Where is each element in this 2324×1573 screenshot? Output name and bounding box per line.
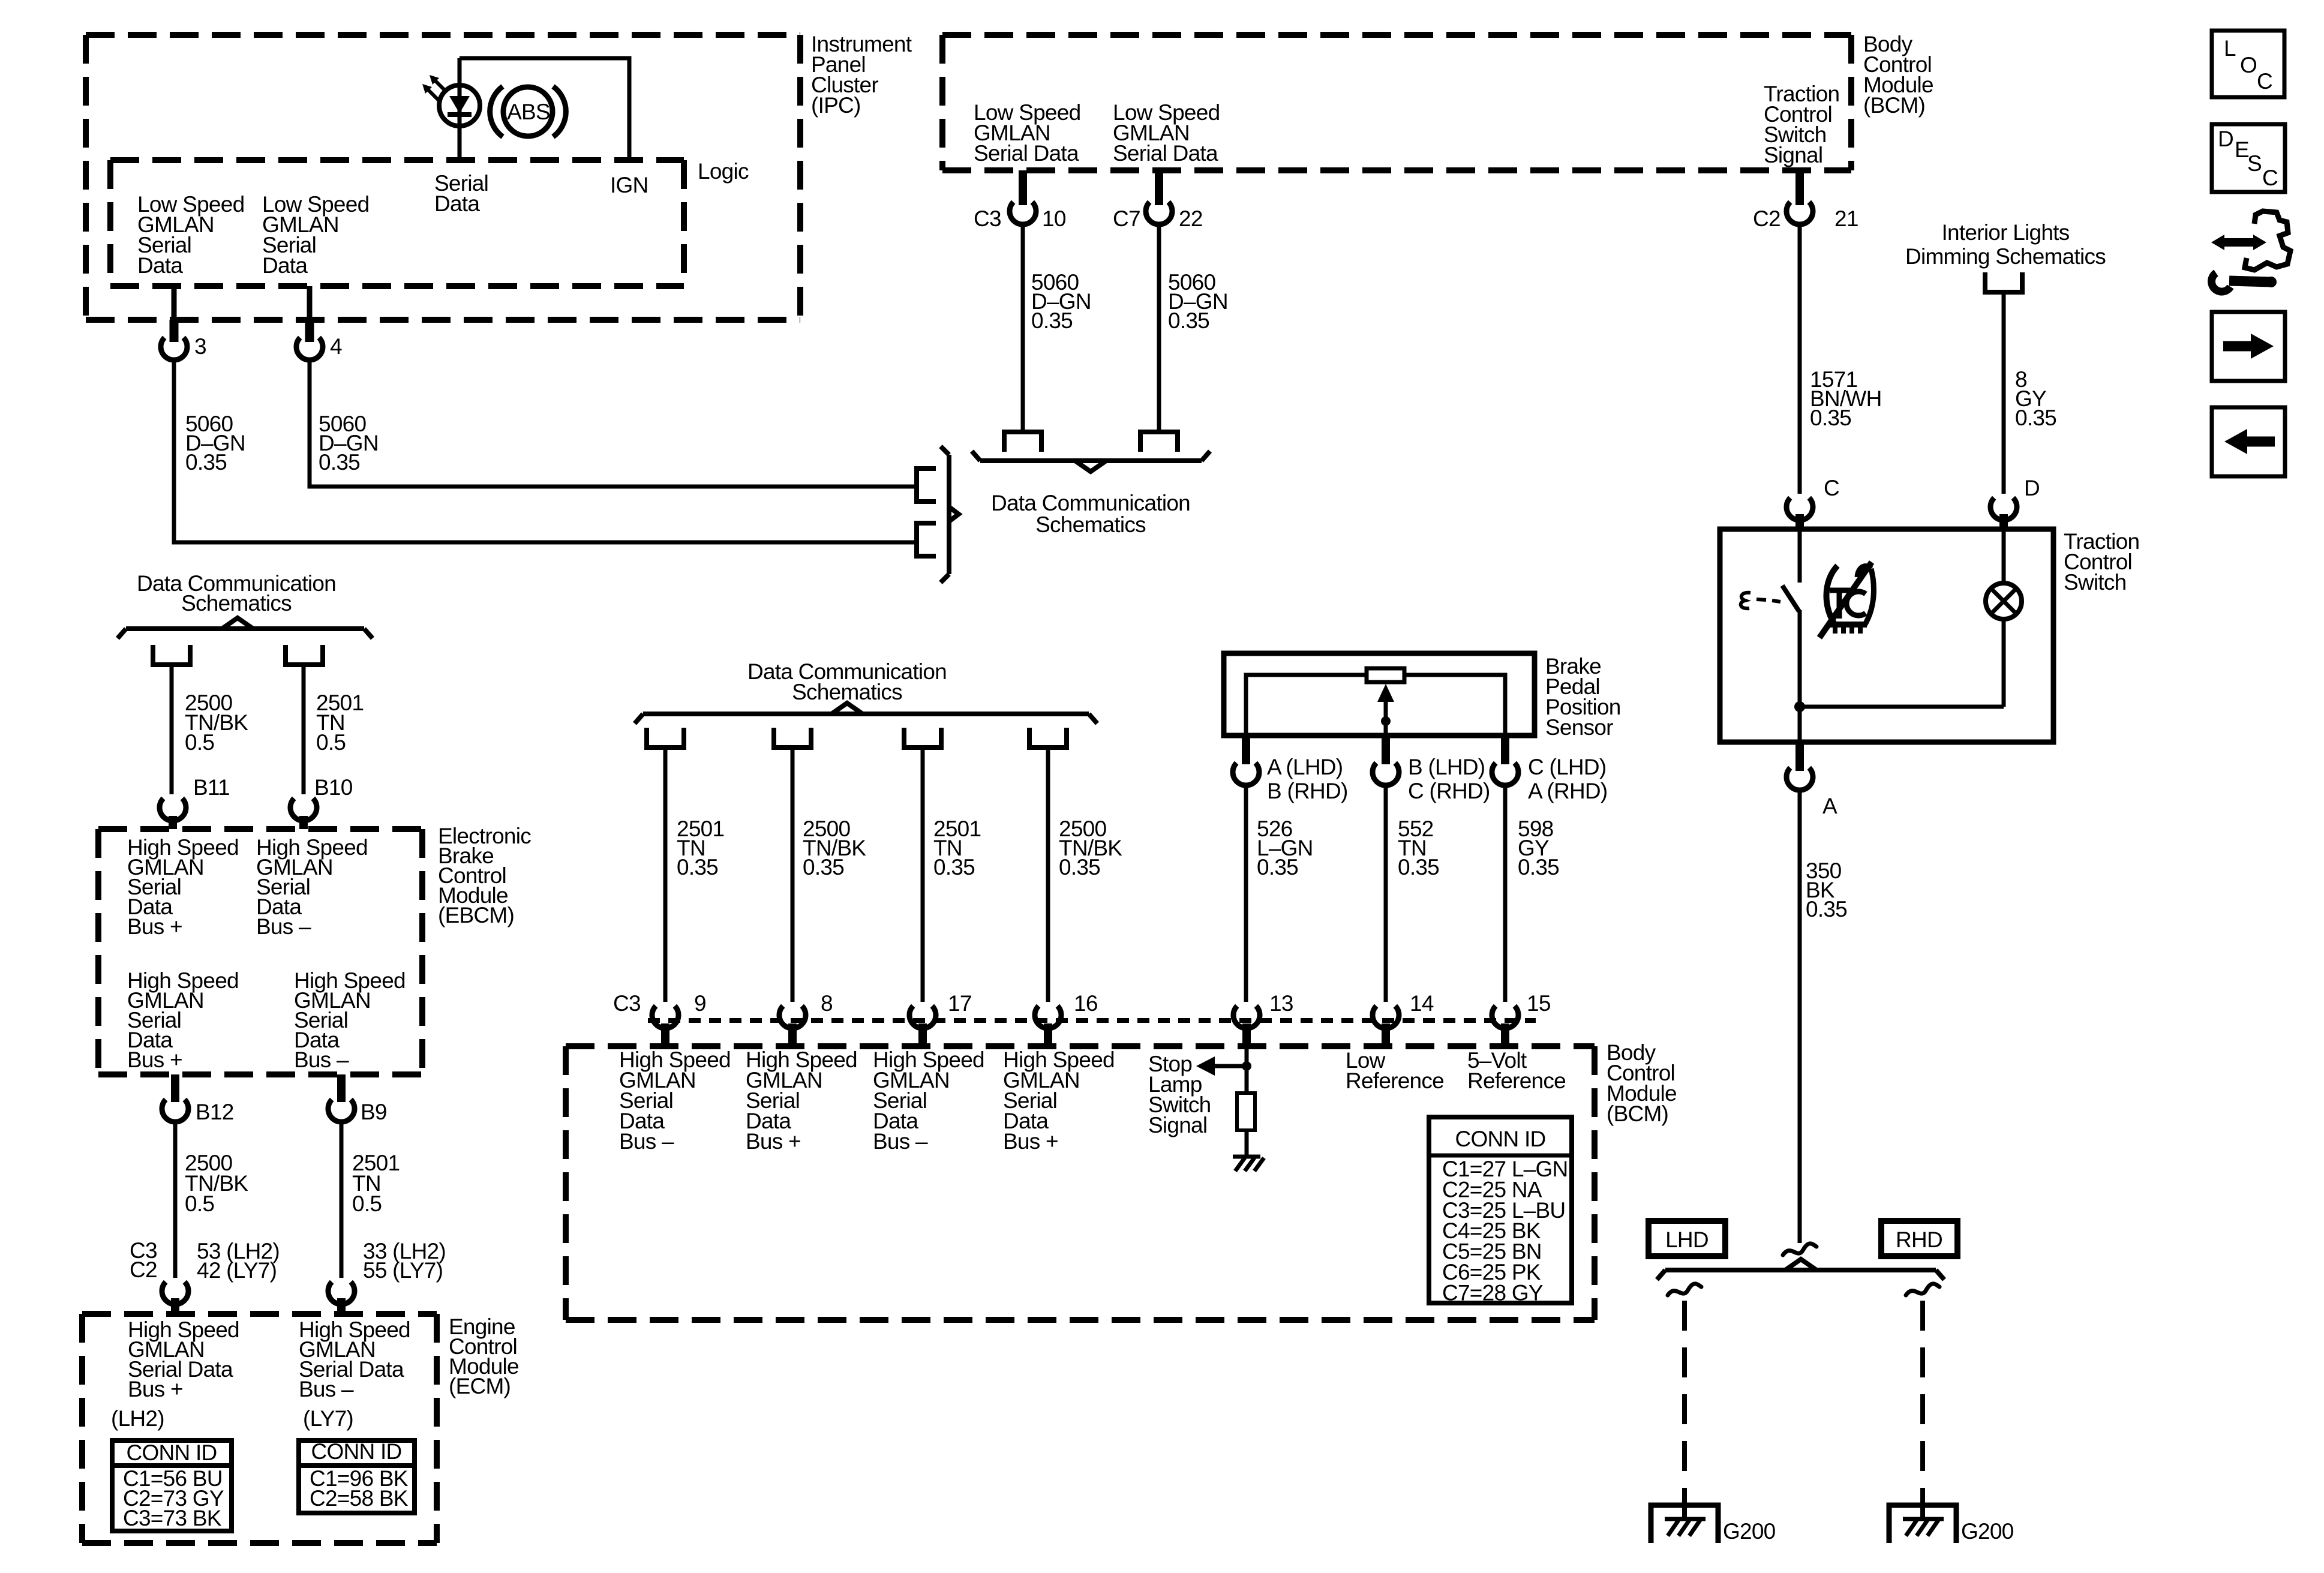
svg-text:B (LHD): B (LHD) [1408,755,1485,779]
svg-text:B (RHD): B (RHD) [1267,779,1348,803]
wire 2500 TN/BK (pin 16) [1046,748,1050,1002]
svg-text:Serial Data: Serial Data [1113,141,1218,166]
svg-text:Data Communication: Data Communication [991,491,1190,515]
label box RHD [1881,1221,1957,1256]
svg-text:C: C [2262,166,2278,190]
connector C3 pin 10 [974,170,1066,231]
svg-text:Bus +: Bus + [127,1047,182,1072]
svg-text:B9: B9 [361,1100,387,1124]
svg-text:0.35: 0.35 [1806,897,1847,921]
svg-text:Schematics: Schematics [1035,512,1146,537]
svg-text:C2: C2 [1753,206,1780,231]
svg-text:15: 15 [1527,991,1551,1016]
receptacle (pin 10 off-page) [1004,432,1041,452]
receptacle (middle wire 4) [1029,728,1067,748]
receptacle (middle wire 2) [774,728,811,748]
connector B11 [160,775,230,829]
wire 598 GY [1503,785,1508,1002]
connector B LHD (sensor) [1373,736,1490,803]
wire 5060 D-GN (pin 4) [310,360,914,487]
connector ECM pin 53/42 [162,1282,188,1314]
receptacle (wire 4 off-page) [917,469,936,502]
svg-text:Data: Data [262,253,308,278]
icon LOC [2212,31,2284,97]
arrow to stop lamp switch signal [1196,1056,1215,1076]
wire 526 L-GN [1244,785,1248,1002]
svg-text:(LH2): (LH2) [111,1406,164,1431]
connector pin 15 (BCM bottom) [1492,991,1551,1046]
indicator lamp DS1 ABS LED [422,58,480,161]
wire switch output to junction [1798,610,1802,742]
svg-text:0.35: 0.35 [2015,406,2056,430]
svg-text:Data: Data [137,253,183,278]
icon TC off indicator [1819,562,1873,638]
table CONN ID (ECM LH2) [112,1440,232,1531]
component box B1 Brake Pedal Position Sensor [1224,653,1535,736]
connector pin 17 (BCM bottom) [909,991,972,1046]
ground G200 (LHD) [1651,1505,1776,1544]
module box U4 Electronic Brake Control Module (EBCM) [98,826,422,832]
svg-text:Serial Data: Serial Data [974,141,1079,166]
wire 2501 TN (B9) [340,1122,344,1278]
svg-text:Logic: Logic [698,159,749,184]
svg-text:0.35: 0.35 [1518,855,1559,879]
wire 2501 TN (B10) [302,665,306,794]
lamp wire from D [2002,532,2006,583]
svg-text:A: A [1822,794,1837,818]
receptacle (B10 off-page) [286,645,323,665]
brace to Data Communication Schematics (BCM wires) [980,458,1202,463]
receptacle (wire 3 off-page) [917,523,936,556]
wire 2501 TN (pin 9) [663,748,668,1002]
svg-text:0.35: 0.35 [319,450,360,475]
wire ground LHD (dashed) [1682,1301,1687,1503]
svg-text:0.35: 0.35 [1059,855,1100,879]
svg-text:Reference: Reference [1467,1068,1566,1093]
wire IGN jumper [460,58,629,161]
svg-text:O: O [2240,53,2257,77]
svg-text:C: C [2257,69,2272,94]
svg-text:C (RHD): C (RHD) [1408,779,1490,803]
connector pin 3 [161,286,206,360]
svg-text:A (LHD): A (LHD) [1267,755,1343,779]
wire pot left [1246,675,1367,736]
switch blade S1 [1782,586,1799,611]
connector pin 13 (BCM bottom) [1233,991,1293,1046]
svg-text:(EBCM): (EBCM) [438,903,514,927]
wire switch input C [1798,532,1802,583]
wire break squiggle (RHD) [1906,1284,1939,1295]
svg-text:21: 21 [1834,206,1858,231]
svg-text:Sensor: Sensor [1545,715,1613,740]
module box U2 Body Control Module (BCM) top [942,32,1851,38]
svg-text:0.5: 0.5 [185,1191,214,1216]
connector ECM pin 33/55 [328,1282,355,1314]
connector pin 9 (BCM bottom) [652,991,706,1046]
connector C2 pin 21 [1753,170,1858,231]
junction dot switch [1794,701,1805,712]
receptacle (interior lights off-page) [1985,272,2022,292]
svg-text:Bus +: Bus + [128,1377,183,1401]
logic box IPC Logic [110,157,684,163]
svg-text:A (RHD): A (RHD) [1528,779,1607,803]
connector pin 8 (BCM bottom) [779,991,833,1046]
svg-text:3: 3 [194,334,206,359]
wire 2500 TN/BK (B12) [173,1122,178,1278]
wire 2500 TN/BK (pin 8) [791,748,795,1002]
ground G200 (RHD) [1889,1505,2014,1544]
svg-text:14: 14 [1410,991,1434,1016]
svg-text:0.35: 0.35 [1168,308,1209,333]
svg-text:(BCM): (BCM) [1863,93,1925,118]
svg-text:Bus +: Bus + [127,914,182,939]
svg-text:IGN: IGN [610,173,648,197]
svg-text:G200: G200 [1961,1519,2014,1544]
svg-text:C7: C7 [1113,206,1140,231]
wire 350 BK [1798,790,1802,1243]
svg-text:13: 13 [1269,991,1293,1016]
pot wiper arrow [1377,684,1394,736]
connector pin 16 (BCM bottom) [1035,991,1098,1046]
wire 552 TN [1384,785,1388,1002]
receptacle (pin 22 off-page) [1140,432,1178,452]
component box S1 Traction Control Switch [1720,529,2053,742]
switch spring (momentary) [1741,593,1780,608]
svg-text:Schematics: Schematics [181,591,292,616]
svg-text:0.35: 0.35 [1810,406,1851,430]
svg-text:CONN ID: CONN ID [1455,1127,1546,1151]
svg-text:CONN ID: CONN ID [311,1439,402,1464]
svg-text:S: S [2247,151,2262,176]
svg-text:Bus +: Bus + [746,1129,801,1154]
wire resistor to ground [1245,1130,1249,1157]
svg-text:Bus –: Bus – [299,1377,354,1401]
svg-text:Signal: Signal [1764,143,1822,167]
svg-text:B12: B12 [196,1100,234,1124]
receptacle (middle wire 3) [904,728,941,748]
svg-text:(IPC): (IPC) [811,93,861,118]
wire stop lamp branch [1245,1046,1249,1093]
svg-text:C: C [1824,476,1839,500]
wire ground RHD (dashed) [1920,1301,1925,1503]
indicator lamp traction control switch [1986,583,2022,619]
svg-text:D: D [2218,127,2233,151]
svg-text:Interior Lights: Interior Lights [1942,220,2070,245]
svg-text:ABS: ABS [507,100,550,124]
svg-text:0.35: 0.35 [1031,308,1073,333]
svg-text:(ECM): (ECM) [449,1374,511,1398]
svg-text:Dimming Schematics: Dimming Schematics [1905,244,2106,269]
connector C LHD (sensor) [1492,736,1607,803]
connector B9 [328,1074,387,1124]
receptacle (middle wire 1) [647,728,684,748]
wire 5060 D-GN (pin 10) [1021,224,1025,430]
connector C7 pin 22 [1113,170,1203,231]
svg-text:0.35: 0.35 [1257,855,1298,879]
svg-text:0.35: 0.35 [677,855,718,879]
connector pin 14 (BCM bottom) [1373,991,1434,1046]
label box LHD [1649,1221,1725,1256]
connector A (switch) [1786,742,1837,818]
wire pot right [1404,675,1505,736]
svg-text:C (LHD): C (LHD) [1528,755,1606,779]
svg-text:0.35: 0.35 [185,450,227,475]
table CONN ID (ECM LY7) [299,1439,415,1513]
ABS telltale symbol [490,86,566,137]
svg-text:9: 9 [694,991,706,1016]
svg-text:Data: Data [434,191,480,216]
svg-text:0.5: 0.5 [316,730,346,755]
potentiometer R1 [1367,668,1404,682]
svg-text:(BCM): (BCM) [1607,1101,1668,1126]
icon forward arrow [2212,312,2285,381]
svg-text:Signal: Signal [1148,1113,1207,1137]
svg-text:C2=58 BK: C2=58 BK [310,1486,409,1511]
svg-text:42 (LY7): 42 (LY7) [197,1258,277,1283]
svg-text:RHD: RHD [1896,1227,1942,1252]
wire 2500 TN/BK (B11) [170,665,174,794]
connector B12 [162,1074,234,1124]
receptacle (B11 off-page) [153,645,190,665]
svg-text:0.35: 0.35 [933,855,975,879]
svg-text:0.35: 0.35 [803,855,844,879]
svg-text:Bus –: Bus – [619,1129,674,1154]
svg-text:10: 10 [1042,206,1066,231]
svg-text:4: 4 [330,334,342,359]
connector D (switch) [1990,476,2040,529]
svg-text:Bus –: Bus – [256,914,311,939]
svg-text:Bus –: Bus – [873,1129,928,1154]
svg-text:Reference: Reference [1346,1068,1444,1093]
svg-text:Bus –: Bus – [294,1047,349,1072]
svg-text:C3: C3 [613,991,641,1016]
wire 5060 D-GN (pin 3) [174,360,914,542]
brace to Data Communication Schematics (right) [941,446,959,583]
svg-text:Switch: Switch [2064,570,2126,595]
table CONN ID (BCM) [1429,1117,1572,1305]
wire break squiggle (350 BK) [1783,1244,1816,1255]
wire 1571 BN/WH [1798,224,1802,494]
icon back arrow [2212,407,2285,476]
connector pin 4 [296,286,342,360]
wire junction horizontal [1800,705,2004,709]
svg-text:L: L [2224,36,2236,61]
inline connector row C3 (fine dashed) [648,1018,1536,1023]
svg-text:8: 8 [821,991,833,1016]
wire 2501 TN (pin 17) [921,748,925,1002]
wire 8 GY [2002,292,2006,494]
connector C (switch) [1786,476,1839,529]
svg-text:16: 16 [1074,991,1098,1016]
svg-text:B10: B10 [314,775,353,800]
svg-text:B11: B11 [193,775,230,800]
junction dot stop lamp [1242,1061,1251,1071]
svg-text:17: 17 [948,991,972,1016]
svg-text:CONN ID: CONN ID [127,1440,217,1465]
module box U1 Instrument Panel Cluster (IPC) [86,32,800,38]
brace (LHD/RHD split) [1665,1268,1936,1272]
svg-text:D: D [2024,476,2040,500]
icon DESC [2212,124,2285,192]
ground (stop lamp) [1233,1155,1260,1159]
svg-text:Bus +: Bus + [1003,1129,1058,1154]
svg-text:C2: C2 [130,1257,157,1282]
resistor R2 (stop lamp pulldown) [1237,1093,1255,1130]
svg-text:C3=73 BK: C3=73 BK [123,1506,222,1530]
wire lamp to junction [2002,619,2006,707]
svg-text:(LY7): (LY7) [303,1406,353,1431]
svg-text:0.5: 0.5 [352,1191,382,1216]
module box U5 Engine Control Module (ECM) [82,1311,437,1317]
svg-text:LHD: LHD [1665,1227,1709,1252]
connector A LHD (sensor) [1233,736,1348,803]
svg-text:C7=28 GY: C7=28 GY [1442,1280,1543,1305]
wire break squiggle (LHD) [1668,1284,1701,1295]
svg-text:0.35: 0.35 [1398,855,1439,879]
svg-text:0.5: 0.5 [185,730,214,755]
connector B10 [290,775,353,829]
brace (middle schematics) [643,712,1089,716]
svg-text:55 (LY7): 55 (LY7) [363,1258,443,1283]
wire 5060 D-GN (pin 22) [1157,224,1161,430]
svg-text:22: 22 [1179,206,1203,231]
module box U3 Body Control Module (BCM) bottom [566,1043,1595,1049]
icon wrench arrow [2211,211,2290,292]
svg-text:C3: C3 [974,206,1001,231]
svg-text:G200: G200 [1723,1519,1776,1544]
brace (EBCM schematics) [126,626,364,631]
